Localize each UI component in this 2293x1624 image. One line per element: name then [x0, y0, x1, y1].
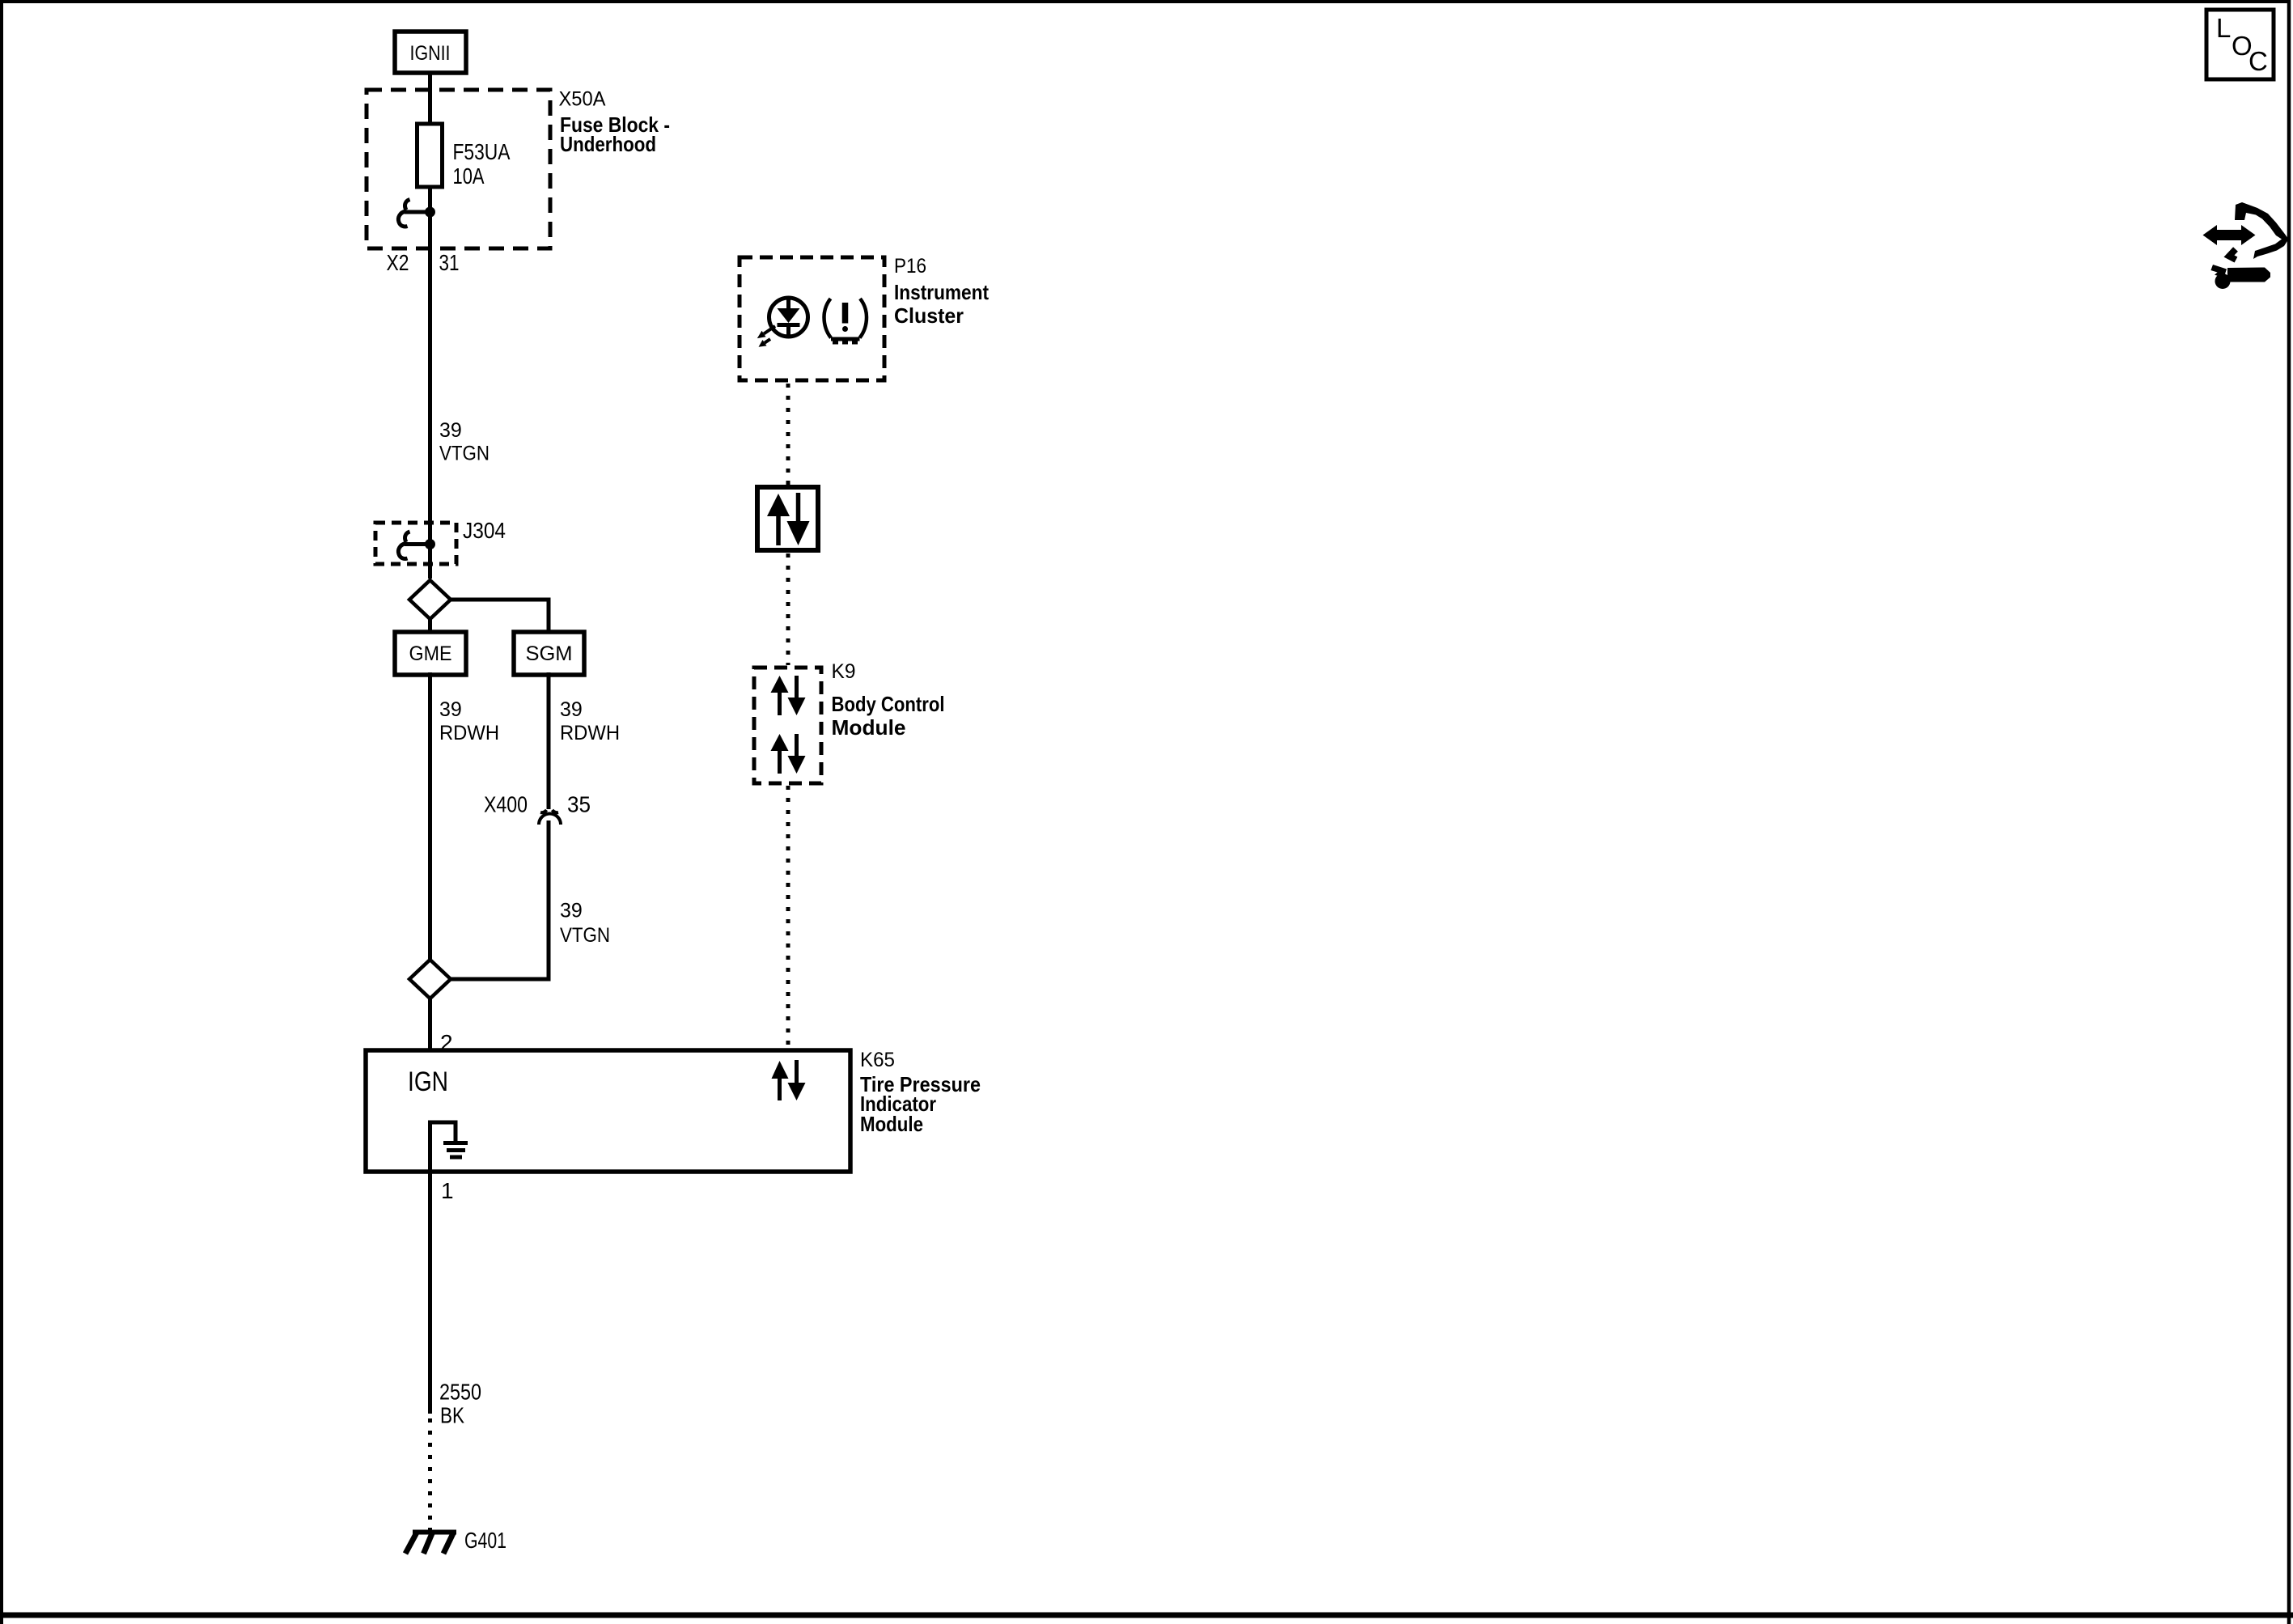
- svg-text:39: 39: [439, 419, 462, 442]
- svg-text:Body Control: Body Control: [832, 692, 945, 716]
- svg-text:P16: P16: [894, 255, 926, 278]
- svg-text:GME: GME: [409, 642, 452, 665]
- svg-text:SGM: SGM: [526, 642, 573, 665]
- svg-text:X2: X2: [387, 250, 409, 275]
- svg-text:K65: K65: [860, 1049, 895, 1071]
- svg-text:39: 39: [560, 698, 583, 721]
- svg-text:Module: Module: [860, 1112, 923, 1136]
- svg-text:X400: X400: [484, 792, 528, 817]
- svg-text:X50A: X50A: [559, 88, 606, 111]
- svg-text:Underhood: Underhood: [560, 132, 656, 156]
- svg-text:35: 35: [567, 792, 591, 817]
- svg-text:31: 31: [439, 250, 460, 275]
- svg-text:10A: 10A: [453, 163, 485, 189]
- svg-text:Cluster: Cluster: [894, 303, 964, 328]
- svg-text:RDWH: RDWH: [439, 722, 499, 744]
- svg-text:VTGN: VTGN: [560, 924, 610, 947]
- svg-text:Instrument: Instrument: [894, 280, 989, 304]
- svg-text:RDWH: RDWH: [560, 722, 620, 744]
- svg-text:L: L: [2216, 13, 2231, 43]
- svg-text:G401: G401: [464, 1528, 506, 1553]
- svg-text:F53UA: F53UA: [453, 139, 511, 164]
- svg-text:1: 1: [441, 1178, 454, 1203]
- svg-text:IGN: IGN: [408, 1066, 448, 1097]
- svg-text:VTGN: VTGN: [439, 443, 490, 465]
- svg-text:BK: BK: [440, 1403, 464, 1428]
- svg-text:2550: 2550: [439, 1380, 481, 1405]
- svg-text:39: 39: [439, 698, 462, 721]
- svg-text:C: C: [2248, 46, 2268, 76]
- svg-text:39: 39: [560, 900, 583, 922]
- svg-text:IGNII: IGNII: [410, 42, 451, 65]
- svg-text:Module: Module: [832, 715, 906, 740]
- svg-text:K9: K9: [832, 660, 856, 683]
- svg-text:J304: J304: [463, 518, 506, 543]
- svg-text:2: 2: [440, 1030, 453, 1055]
